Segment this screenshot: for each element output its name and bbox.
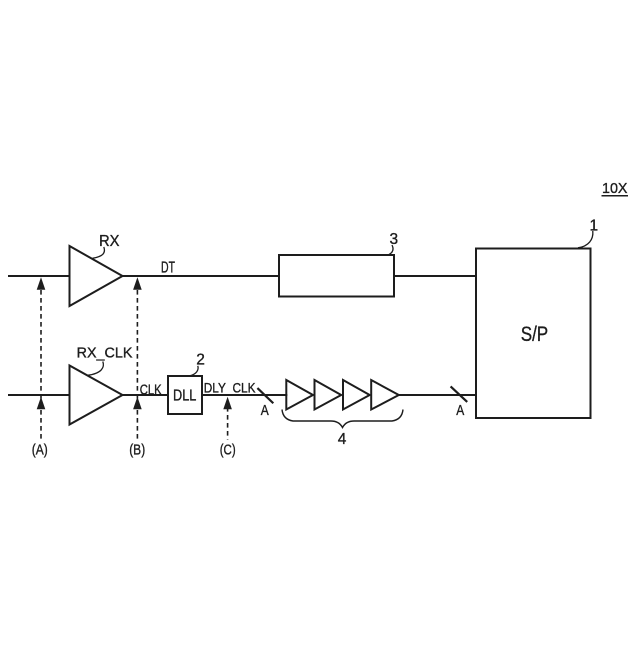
- buffer B3: [343, 380, 370, 410]
- svg-text:2: 2: [196, 352, 205, 369]
- wire: clock input segment: [9, 394, 70, 396]
- block 1 S/P (serial-to-parallel converter): [476, 249, 591, 419]
- wire: CLK net from RX_CLK to DLL: [123, 394, 169, 396]
- wire: DT net from RX to block 3: [123, 275, 280, 277]
- svg-text:(B): (B): [129, 442, 145, 459]
- wire: DT net from block 3 to S/P: [394, 275, 476, 277]
- svg-text:(C): (C): [220, 442, 236, 459]
- probe line (B): dashed vertical with arrowheads: [133, 277, 142, 439]
- brace under buffers (group 4): [282, 410, 403, 428]
- svg-text:DT: DT: [161, 260, 175, 277]
- svg-text:RX_CLK: RX_CLK: [77, 346, 133, 362]
- svg-text:RX: RX: [99, 233, 120, 250]
- svg-text:DLL: DLL: [173, 388, 196, 405]
- svg-text:4: 4: [338, 431, 347, 448]
- buffer B2: [315, 380, 342, 410]
- block 2 DLL: [168, 376, 202, 414]
- svg-text:(A): (A): [32, 442, 48, 459]
- amplifier RX: [70, 246, 123, 306]
- svg-text:S/P: S/P: [521, 323, 549, 346]
- buffer B1: [286, 380, 313, 410]
- wire: data input segment: [9, 275, 70, 277]
- bus slash A (left): [258, 389, 272, 403]
- bus slash A (right): [451, 387, 466, 401]
- svg-text:A: A: [456, 402, 464, 419]
- svg-text:CLK: CLK: [140, 381, 162, 398]
- leader line for ref 1: [578, 231, 593, 248]
- probe line (A): dashed vertical with arrowheads: [37, 277, 46, 439]
- svg-text:DLY_CLK: DLY_CLK: [204, 379, 256, 395]
- svg-text:10X: 10X: [602, 180, 628, 197]
- svg-text:A: A: [261, 402, 269, 419]
- amplifier RX_CLK: [70, 366, 123, 425]
- leader line for RX label: [93, 247, 105, 258]
- wire: delayed clock to S/P: [399, 394, 476, 396]
- buffer B4: [371, 380, 399, 410]
- figure label 10X underlined: [602, 180, 629, 197]
- svg-text:1: 1: [590, 217, 599, 234]
- leader line for RX_CLK label: [88, 362, 104, 376]
- block 3 (channel block): [279, 255, 394, 297]
- probe line (C): dashed vertical with arrowhead: [223, 397, 232, 440]
- leader line for ref 2: [190, 366, 198, 376]
- wire: DLY_CLK net from DLL to buffer chain: [202, 394, 286, 396]
- svg-text:3: 3: [390, 231, 399, 248]
- leader line for ref 3: [389, 245, 393, 255]
